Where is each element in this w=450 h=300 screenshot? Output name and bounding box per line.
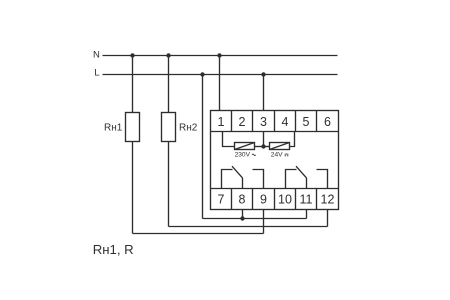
terminal row top separator xyxy=(211,131,339,133)
terminal divider 10/11 xyxy=(295,189,297,210)
svg-text:7: 7 xyxy=(218,193,225,207)
svg-text:5: 5 xyxy=(303,115,310,129)
svg-text:Rн2: Rн2 xyxy=(179,123,198,134)
svg-text:Rн1, R: Rн1, R xyxy=(93,242,134,257)
svg-text:4: 4 xyxy=(282,115,289,129)
terminal divider 9/10 xyxy=(274,189,276,210)
resistor Rн1 xyxy=(126,113,140,142)
coil K1 230V xyxy=(235,143,255,150)
coil K2 24V xyxy=(270,143,290,150)
wire L bus xyxy=(103,74,338,76)
wire L drop to terminal 3 xyxy=(263,75,265,111)
node L-terminal3 junction xyxy=(261,72,265,76)
terminal divider 1/2 xyxy=(231,111,233,132)
wire N drop to terminal 1 xyxy=(219,56,221,111)
svg-text:1: 1 xyxy=(218,115,225,129)
wire coil K2 to terminal 4/5 xyxy=(290,132,295,147)
terminal divider 8/9 xyxy=(252,189,254,210)
wire terminal 1 to coil K1 xyxy=(223,132,235,147)
svg-text:9: 9 xyxy=(260,193,267,207)
device outline U1 xyxy=(211,111,339,210)
node coil junction xyxy=(261,144,265,148)
wire bottom bus L xyxy=(203,218,307,220)
value symbol DC xyxy=(285,153,289,155)
svg-text:230V: 230V xyxy=(235,151,251,158)
node L-drop junction xyxy=(200,72,204,76)
svg-text:2: 2 xyxy=(239,115,246,129)
terminal divider 11/12 xyxy=(316,189,318,210)
wire N drop to Rн2 xyxy=(168,56,170,113)
svg-text:11: 11 xyxy=(300,193,313,207)
wire terminal 12 stub xyxy=(327,210,329,227)
wire Rн2 leg xyxy=(168,142,170,227)
contact relay 2 fixed terminal 12 xyxy=(317,170,328,189)
terminal divider 5/6 xyxy=(316,111,318,132)
wire Rн1 to terminal 9 xyxy=(133,233,264,235)
terminal row bottom separator xyxy=(211,188,339,190)
contact relay 1 blade xyxy=(232,166,243,178)
contact relay 2 blade xyxy=(296,166,307,178)
resistor Rн2 xyxy=(162,113,176,142)
contact relay 2 fixed terminal 10 xyxy=(286,170,297,189)
terminal divider 4/5 xyxy=(295,111,297,132)
svg-text:6: 6 xyxy=(324,115,331,129)
node N-terminal1 junction xyxy=(217,53,221,57)
wire L drop to bottom bus xyxy=(202,75,204,219)
svg-text:Rн1: Rн1 xyxy=(104,123,123,134)
node N-Rн2 junction xyxy=(166,53,170,57)
contact relay 1 fixed terminal 7 xyxy=(222,170,233,189)
wire terminal 11 stub xyxy=(306,210,308,219)
svg-text:L: L xyxy=(94,67,99,78)
terminal divider 2/3 xyxy=(252,111,254,132)
wire terminal 8 stub xyxy=(242,210,244,219)
wire N bus xyxy=(103,55,338,57)
contact relay 2 common terminal 11 xyxy=(306,178,308,189)
svg-text:3: 3 xyxy=(260,115,267,129)
node N-Rн1 junction xyxy=(130,53,134,57)
node terminal 8 junction xyxy=(240,216,244,220)
wire terminal 3 to coil junction xyxy=(263,132,265,147)
svg-text:N: N xyxy=(93,50,100,61)
wire Rн2 to terminal 12 xyxy=(169,226,328,228)
wire terminal 9 stub xyxy=(263,210,265,234)
terminal divider 7/8 xyxy=(231,189,233,210)
svg-text:12: 12 xyxy=(321,193,335,207)
wire coil K1 to coil K2 xyxy=(255,146,270,148)
wire N drop to Rн1 xyxy=(132,56,134,113)
contact relay 1 common terminal 8 xyxy=(242,178,244,189)
svg-text:24V: 24V xyxy=(271,151,283,158)
svg-text:8: 8 xyxy=(239,193,246,207)
svg-text:10: 10 xyxy=(278,193,292,207)
contact relay 1 fixed terminal 9 xyxy=(253,170,264,189)
wire Rн1 leg xyxy=(132,142,134,234)
terminal divider 3/4 xyxy=(274,111,276,132)
